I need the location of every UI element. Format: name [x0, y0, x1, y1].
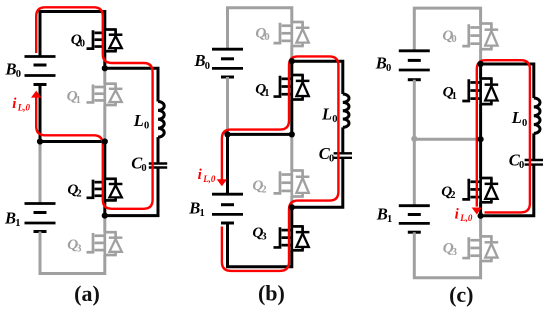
capacitor C0 (panel b) [334, 153, 352, 158]
label Q2 (panel a) [67, 181, 81, 199]
wire: node A to Q1 drain (panel c) [479, 64, 482, 79]
wire: B1- to bottom wire (panel b) [228, 223, 292, 267]
wire: panel-c top wire gray [414, 8, 480, 52]
wire: B0- to left junction gray (panel b) [226, 77, 229, 133]
transistor Q3 gray (panel c) [462, 235, 498, 262]
label Q2 (panel c) [441, 183, 455, 201]
inductor L0 (panel a) [158, 102, 164, 138]
wire: Q1 source to mid node (panel c) [479, 104, 482, 139]
svg-text:2: 2 [450, 190, 455, 201]
battery B1 (panel b) [212, 194, 243, 223]
wire: node A to Q1 drain (panel b) [290, 61, 293, 75]
node B (panel a) [102, 213, 108, 219]
node A (panel c) [478, 61, 484, 67]
wire: L0 to C0 (panel a) [157, 137, 160, 163]
wire: node B to Q3 drain (panel b) [290, 207, 293, 226]
svg-text:0: 0 [519, 160, 524, 171]
transistor Q0 gray (panel c) [462, 22, 498, 50]
wire: Q0 source to node A gray (panel c) [479, 49, 482, 62]
svg-text:L: L [511, 108, 522, 127]
svg-text:B: B [375, 53, 387, 72]
svg-text:0: 0 [144, 121, 149, 132]
svg-text:L,0: L,0 [17, 102, 31, 112]
wire: mid wire gray (panel c) [414, 138, 480, 141]
wire: mid wire junction to mid node (panel b) [226, 133, 292, 136]
wire: Q1 drain lead gray (panel a) [103, 68, 106, 83]
node A (panel b) [289, 58, 295, 64]
wire: left junction to B1 gray (panel a) [39, 143, 42, 204]
current path (panel c): Q1->L0->C0->Q2 loop [477, 60, 530, 212]
node: mid node (panel b) [289, 131, 295, 137]
transistor Q2 (panel a) [87, 178, 123, 202]
wire: mid wire left junction to mid node (panel a) [39, 140, 105, 143]
label iL0 (panel b) [198, 167, 216, 184]
current path (panel a): B0->Q0->L0->C0->Q2->B0 [36, 7, 152, 209]
wire: L0 to C0 (panel b) [341, 127, 344, 153]
node: left junction gray (panel c) [411, 136, 417, 142]
arrow iL0 (panel b) [217, 179, 227, 186]
label iL0 (panel a) [12, 96, 30, 113]
svg-text:0: 0 [522, 118, 527, 129]
wire: node B to right rail bottom (panel c) [481, 165, 534, 216]
wire: B0- to left junction gray (panel c) [413, 80, 416, 139]
transistor Q2 gray (panel b) [274, 169, 310, 198]
label Q1 (panel c) [443, 84, 457, 102]
wire: Q2 drain to mid node (panel a) [103, 142, 106, 179]
node A (panel a) [102, 65, 108, 71]
node: left junction (panel a) [37, 138, 43, 144]
svg-text:3: 3 [76, 244, 81, 255]
wire: L0 to C0 (panel c) [532, 133, 535, 160]
label Q0 (panel b) [255, 25, 269, 43]
svg-text:L,0: L,0 [459, 213, 473, 223]
transistor Q1 (panel b) [274, 74, 310, 101]
wire: node A to right rail (panel c) [481, 64, 534, 98]
svg-text:(b): (b) [258, 281, 285, 306]
wire: C0 to node B (panel a) [105, 168, 158, 216]
node: mid node (panel a) [102, 138, 108, 144]
svg-text:0: 0 [205, 61, 210, 72]
label B0 (panel c) [375, 53, 391, 74]
label Q1 (panel a) [67, 87, 81, 105]
wire: node A to right rail top (panel a) [105, 68, 158, 101]
wire: mid node to Q2 drain (panel c) [479, 139, 482, 178]
node B (panel c) [478, 213, 484, 219]
label Q2 (panel b) [252, 177, 266, 195]
wire: B0- down to left junction (panel a) [39, 85, 42, 142]
battery B0 (panel c) [399, 51, 430, 80]
wire: panel-b top wire gray [228, 8, 292, 51]
label L0 (panel c) [511, 108, 527, 129]
svg-text:0: 0 [386, 63, 391, 74]
capacitor C0 (panel a) [149, 164, 167, 168]
svg-text:2: 2 [261, 184, 266, 195]
wire: node B to Q3 drain gray (panel a) [103, 217, 106, 232]
label L0 (panel b) [321, 104, 337, 125]
svg-text:1: 1 [387, 214, 392, 225]
battery B0 (panel b) [212, 49, 243, 77]
transistor Q0 gray (panel b) [274, 21, 310, 48]
svg-text:L: L [321, 104, 332, 123]
label Q3 (panel a) [67, 236, 81, 254]
label B1 (panel a) [4, 208, 20, 229]
svg-text:1: 1 [200, 208, 205, 219]
wire: left junction to B1 gray (panel c) [413, 139, 416, 206]
arrow iL0 (panel c) [472, 208, 482, 215]
wire: left junction down to B1 (panel b) [226, 134, 229, 194]
label C0 (panel a) [131, 153, 146, 174]
wire: node B to Q3 drain gray (panel c) [479, 218, 482, 237]
label L0 (panel a) [133, 111, 149, 132]
label B1 (panel b) [188, 199, 204, 220]
battery B0 (panel a) [25, 57, 56, 85]
wire: Q2 source to node B (panel c) [479, 202, 482, 216]
svg-text:2: 2 [76, 188, 81, 199]
transistor Q2 (panel c) [462, 177, 498, 204]
battery B1 (panel a) [25, 204, 56, 232]
wire: Q0 source to node A gray (panel b) [290, 46, 293, 60]
wire: node A to right rail (panel b) [292, 61, 343, 94]
label C0 (panel c) [509, 150, 524, 171]
label Q0 (panel a) [71, 31, 85, 49]
svg-text:L: L [133, 111, 144, 130]
svg-text:1: 1 [15, 218, 20, 229]
svg-text:0: 0 [329, 154, 334, 165]
wire: Q1 source to mid node gray (panel a) [103, 105, 106, 140]
inductor L0 (panel c) [534, 98, 540, 133]
transistor Q1 (panel c) [462, 77, 498, 105]
transistor Q3 (panel b) [274, 225, 310, 252]
node: left junction (panel b) [224, 131, 230, 137]
transistor Q1 gray (panel a) [87, 82, 123, 106]
svg-text:3: 3 [261, 231, 266, 242]
svg-text:3: 3 [452, 247, 457, 258]
label B0 (panel a) [5, 60, 21, 81]
transistor Q0 (panel a) [87, 28, 123, 52]
svg-text:(a): (a) [74, 281, 100, 306]
wire: Q2 source to node B (panel a) [103, 200, 106, 215]
wire: B1- to bottom wire gray (panel a) [40, 232, 105, 274]
label iL0 (panel c) [455, 207, 473, 224]
svg-text:0: 0 [80, 39, 85, 50]
svg-text:B: B [5, 60, 17, 79]
current path (panel b): B1->Q1->L0->C0->Q3->B1 [222, 56, 339, 271]
svg-text:1: 1 [452, 91, 457, 102]
wire: Q1 source to mid node (panel b) [290, 100, 293, 135]
svg-text:0: 0 [16, 69, 21, 80]
svg-text:0: 0 [451, 34, 456, 45]
wire: B1- to bottom wire gray (panel c) [414, 232, 480, 278]
svg-text:0: 0 [332, 114, 337, 125]
label Q3 (panel c) [443, 240, 457, 258]
wire: panel-a top wire B0+ to Q0 drain [40, 12, 105, 58]
svg-text:B: B [188, 199, 200, 218]
wire: mid node to Q2 drain gray (panel b) [290, 136, 293, 171]
battery B1 (panel c) [399, 206, 430, 233]
arrow iL0 (panel a) [31, 91, 41, 98]
label Q3 (panel b) [252, 224, 266, 242]
label Q0 (panel c) [442, 27, 456, 45]
svg-text:1: 1 [264, 88, 269, 99]
svg-text:0: 0 [264, 32, 269, 43]
svg-text:B: B [376, 205, 388, 224]
wire: Q0 source to node A (panel a) [103, 51, 106, 68]
capacitor C0 (panel c) [525, 160, 543, 165]
label B1 (panel c) [376, 205, 392, 226]
label C0 (panel b) [319, 144, 334, 165]
transistor Q3 gray (panel a) [87, 231, 123, 256]
svg-text:B: B [4, 208, 16, 227]
svg-text:L,0: L,0 [202, 174, 216, 184]
svg-text:(c): (c) [449, 282, 473, 307]
svg-text:1: 1 [76, 95, 81, 106]
wire: C0 to node B corner (panel b) [292, 158, 343, 208]
inductor L0 (panel b) [343, 94, 349, 127]
label Q1 (panel b) [255, 81, 269, 99]
svg-text:B: B [194, 51, 206, 70]
svg-text:0: 0 [141, 163, 146, 174]
node: mid node (panel c) [478, 136, 484, 142]
label B0 (panel b) [194, 51, 210, 72]
wire: Q2 source to node B gray (panel b) [290, 197, 293, 206]
node B (panel b) [289, 204, 295, 210]
